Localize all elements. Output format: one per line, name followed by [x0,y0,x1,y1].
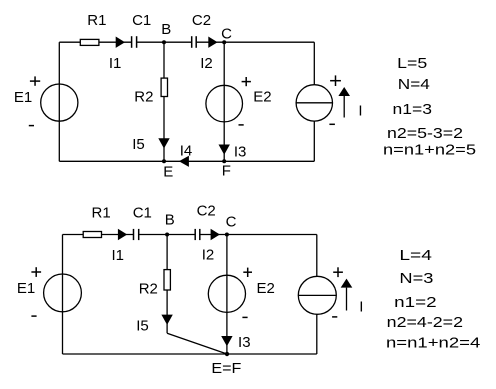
minus sign E2 (circuit 1) [239,124,244,126]
svg-text:C: C [221,26,232,43]
svg-text:n=n1+n2=5: n=n1+n2=5 [383,141,476,158]
wire middle branch slant to E=F (circuit 2) [167,333,227,354]
current direction arrow I (circuit 2) [341,279,353,311]
wire top rail mid segment B (circuit 1) [137,41,191,43]
svg-text:E=F: E=F [211,360,241,377]
current arrow I2 (circuit 2) [211,229,220,240]
source E1 (circuit 2) [44,274,82,312]
wire branch C to E=F (circuit 2) [226,235,228,355]
minus sign current source (circuit 1) [329,123,335,125]
minus sign current source (circuit 2) [332,316,337,318]
current source I (circuit 1) [296,85,332,121]
svg-text:I2: I2 [200,55,213,72]
node B (circuit 2) [165,233,169,237]
wire top rail right segment (circuit 1) [197,41,315,43]
svg-text:I1: I1 [111,247,124,264]
plus sign current source (circuit 2) [333,267,343,277]
svg-text:I3: I3 [238,334,251,351]
wire right rail lower (circuit 1) [313,121,315,161]
svg-text:N=3: N=3 [399,270,433,287]
svg-text:I1: I1 [109,55,122,72]
minus sign E1 (circuit 2) [31,315,36,317]
svg-text:B: B [161,21,171,38]
svg-text:E1: E1 [17,280,35,297]
capacitor C1 (circuit 1) [132,36,137,48]
node F (circuit 1) [222,159,226,163]
capacitor C1 (circuit 2) [134,229,139,240]
wire middle branch B-E (circuit 1) [163,42,165,161]
svg-text:I2: I2 [202,247,215,264]
svg-text:I4: I4 [180,143,193,160]
svg-text:C: C [226,214,237,231]
node B (circuit 1) [162,40,166,44]
current arrow I1 (circuit 1) [116,37,125,48]
current arrow I3 (circuit 2) [221,336,232,346]
wire middle branch vertical (circuit 2) [166,235,168,334]
svg-text:E2: E2 [257,280,275,297]
plus sign E1 (circuit 2) [31,267,41,277]
resistor R1 (circuit 2) [83,232,101,238]
source E2 (circuit 2) [208,275,245,312]
svg-text:N=4: N=4 [398,76,430,93]
svg-text:I5: I5 [136,317,149,334]
current arrow I5 (circuit 1) [158,138,169,148]
plus sign current source (circuit 1) [330,75,341,86]
wire left rail (circuit 2) [62,235,64,355]
wire right rail upper (circuit 2) [316,235,318,277]
svg-text:R2: R2 [139,281,158,298]
minus sign E2 (circuit 2) [242,316,247,318]
svg-text:I5: I5 [132,136,145,153]
wire right rail lower (circuit 2) [316,314,318,354]
node E=F (circuit 2) [225,352,229,356]
svg-text:n1=2: n1=2 [394,294,437,311]
resistor R1 (circuit 1) [80,39,99,45]
wire top rail right segment (circuit 2) [200,234,316,236]
svg-text:n2=4-2=2: n2=4-2=2 [387,314,463,331]
svg-text:L=5: L=5 [397,55,427,72]
wire branch C-F (circuit 1) [223,42,225,161]
node C (circuit 1) [222,40,226,44]
current direction arrow I (circuit 1) [338,87,350,118]
wire top rail left segment (circuit 1) [59,41,131,43]
svg-text:I: I [359,298,363,315]
current arrow I2 (circuit 1) [208,37,217,48]
svg-text:R1: R1 [87,12,106,29]
svg-text:E1: E1 [14,89,32,106]
wire bottom rail (circuit 2) [63,353,317,355]
svg-text:E2: E2 [253,89,271,106]
wire bottom rail (circuit 1) [59,160,314,162]
svg-text:R1: R1 [92,205,111,222]
svg-text:C2: C2 [192,12,211,29]
source E2 (circuit 1) [206,85,243,122]
svg-text:I: I [358,102,362,119]
svg-text:R2: R2 [134,89,153,106]
svg-text:C2: C2 [197,203,216,220]
svg-text:B: B [165,211,175,228]
capacitor C2 (circuit 1) [192,36,197,48]
svg-text:C1: C1 [132,12,151,29]
current arrow I3 (circuit 1) [219,145,230,155]
minus sign E1 (circuit 1) [29,125,34,127]
current source I (circuit 2) [298,276,336,314]
svg-text:n1=3: n1=3 [393,101,433,118]
plus sign E1 (circuit 1) [30,76,40,85]
svg-text:n2=5-3=2: n2=5-3=2 [387,125,463,142]
svg-text:n=n1+n2=4: n=n1+n2=4 [386,335,480,352]
node C (circuit 2) [225,233,229,237]
wire left rail (circuit 1) [58,42,60,161]
capacitor C2 (circuit 2) [195,229,200,240]
plus sign E2 (circuit 2) [243,268,252,277]
resistor R2 (circuit 1) [161,78,167,96]
svg-text:C1: C1 [133,205,152,222]
svg-text:F: F [222,163,231,180]
node E (circuit 1) [162,159,166,163]
current arrow I5 (circuit 2) [161,315,172,325]
wire top rail left segment (circuit 2) [63,234,134,236]
source E1 (circuit 1) [41,84,78,121]
svg-text:L=4: L=4 [399,247,432,264]
current arrow I4 (circuit 1) [179,156,189,167]
current arrow I1 (circuit 2) [118,229,127,240]
resistor R2 (circuit 2) [164,270,170,290]
wire right rail upper (circuit 1) [313,42,315,85]
svg-text:E: E [163,164,173,181]
plus sign E2 (circuit 1) [242,77,251,86]
wire top rail mid segment (circuit 2) [139,234,195,236]
svg-text:I3: I3 [234,143,247,160]
